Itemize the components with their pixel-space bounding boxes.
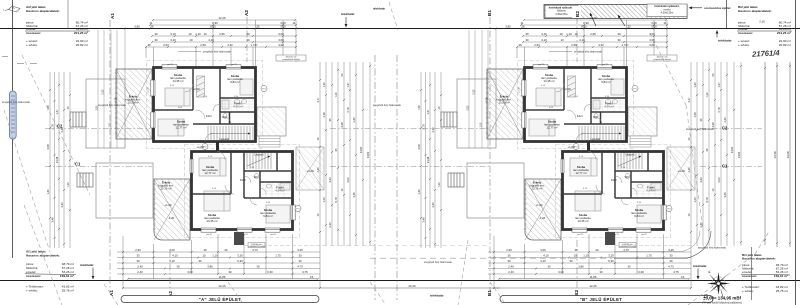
svg-text:25,76 m²: 25,76 m² [776,289,788,293]
svg-text:összesen:: összesen: [26,274,41,278]
svg-text:14,68: 14,68 [786,151,790,158]
svg-text:4,50x0,50m: 4,50x0,50m [661,12,674,15]
svg-text:+ erkély:: + erkély: [26,288,38,292]
svg-text:±0,00= 134,95 mBf: ±0,00= 134,95 mBf [703,295,741,300]
svg-text:4,40x2,65m: 4,40x2,65m [555,13,568,16]
svg-text:201,26 m²: 201,26 m² [74,31,88,35]
svg-text:telekhatár: telekhatár [718,39,733,43]
svg-text:21761/4: 21761/4 [751,48,781,59]
svg-text:telekhatár: telekhatár [373,7,385,11]
svg-text:szegélykő hely határvonala: szegélykő hely határvonala [2,101,30,104]
svg-text:20,30: 20,30 [409,284,416,288]
svg-text:B2: B2 [574,290,579,296]
svg-text:összesen:: összesen: [742,274,757,278]
svg-text:C2: C2 [722,126,728,131]
svg-text:A2: A2 [244,10,249,16]
svg-text:C2: C2 [57,124,63,129]
svg-text:B1: B1 [487,10,492,16]
svg-text:+ erkély:: + erkély: [26,43,38,47]
svg-text:Hasznos alapterületek:: Hasznos alapterületek: [26,9,60,13]
svg-text:25,76 m²: 25,76 m² [62,288,74,292]
svg-text:B1: B1 [487,290,492,296]
svg-text:szegélykő hely határvonala: szegélykő hely határvonala [698,247,726,250]
svg-text:telekhatár: telekhatár [693,264,708,268]
svg-text:"B" JELŰ ÉPÜLET: "B" JELŰ ÉPÜLET [580,297,623,302]
svg-text:201,26 m²: 201,26 m² [777,31,791,35]
svg-text:B2: B2 [575,11,580,17]
svg-text:szegélykő hely határvonala: szegélykő hely határvonala [98,104,126,107]
svg-text:Hasznos alapterületek:: Hasznos alapterületek: [742,257,776,261]
svg-text:20,82 m²: 20,82 m² [779,43,791,47]
svg-text:2,16: 2,16 [759,20,765,24]
svg-text:14,38: 14,38 [773,151,777,158]
svg-text:("A" jelű épület földszinti pa: ("A" jelű épület földszinti padlószint) [702,302,742,305]
svg-text:szegélykő hely határvonala: szegélykő hely határvonala [686,128,714,131]
svg-text:szegélykő hely határvonala: szegélykő hely határvonala [373,104,401,107]
svg-text:20,82 m²: 20,82 m² [76,43,88,47]
svg-text:szegélykő hely határvonala: szegélykő hely határvonala [424,261,452,264]
svg-text:C1: C1 [75,162,81,167]
svg-text:A1: A1 [110,13,115,19]
svg-text:telekhatár: telekhatár [341,12,356,16]
svg-text:É: É [709,269,711,274]
svg-text:telekhatár: telekhatár [80,263,95,267]
svg-text:telekhatár: telekhatár [430,294,445,298]
svg-text:+ erkély:: + erkély: [742,289,754,293]
svg-text:"A" JELŰ ÉPÜLET: "A" JELŰ ÉPÜLET [199,297,242,302]
svg-text:összesen:: összesen: [738,31,753,35]
svg-text:Hasznos alapterületek:: Hasznos alapterületek: [738,9,772,13]
svg-text:C1: C1 [722,164,728,169]
svg-text:összesen:: összesen: [26,31,41,35]
svg-text:+ erkély:: + erkély: [738,43,750,47]
